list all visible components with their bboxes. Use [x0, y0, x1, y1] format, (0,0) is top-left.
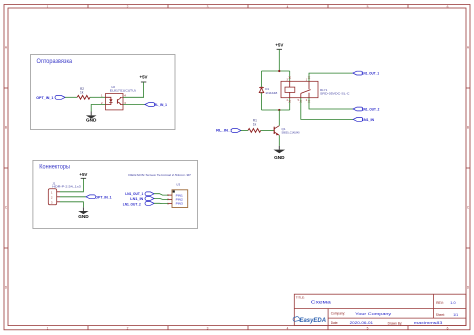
- wire LN1_IN to U3 pin2: [154, 198, 168, 199]
- svg-text:LN1_IN: LN1_IN: [130, 197, 143, 201]
- wire top rail: [262, 70, 290, 72]
- junction: [278, 70, 280, 72]
- svg-text:RL_IN_1: RL_IN_1: [154, 103, 167, 107]
- power +5V (opto section): [140, 75, 148, 83]
- wire port to R2: [65, 96, 77, 98]
- port OPT_IN_1 (connector section): [86, 195, 112, 199]
- svg-text:S8050_C141840: S8050_C141840: [282, 131, 300, 135]
- svg-text:1: 1: [47, 327, 49, 331]
- svg-text:LN1_OUT_1: LN1_OUT_1: [362, 72, 380, 76]
- EasyEDA logo: [293, 317, 326, 325]
- svg-text:Опторазвязка: Опторазвязка: [37, 59, 73, 65]
- svg-text:Your Company: Your Company: [355, 312, 391, 316]
- wire LN1_OUT_2 to U3 pin3: [154, 202, 168, 204]
- svg-text:maximms83: maximms83: [414, 321, 443, 325]
- svg-text:3: 3: [207, 5, 209, 9]
- svg-text:Sheet:: Sheet:: [436, 313, 445, 317]
- wire R1 to base: [261, 129, 275, 131]
- wire collector up: [278, 110, 280, 126]
- svg-text:4: 4: [287, 5, 289, 9]
- title block: [294, 294, 466, 325]
- svg-text:B: B: [467, 126, 469, 130]
- svg-text:OPT_IN_1: OPT_IN_1: [95, 195, 111, 199]
- port LN1_IN (relay): [353, 118, 374, 122]
- svg-text:LN1_OUT_1: LN1_OUT_1: [125, 192, 143, 196]
- diode D1: [259, 87, 277, 95]
- svg-text:2: 2: [127, 327, 129, 331]
- svg-text:6: 6: [447, 5, 449, 9]
- section box Опторазвязка: [31, 55, 176, 130]
- svg-text:1N4448: 1N4448: [265, 91, 277, 95]
- svg-text:+5V: +5V: [275, 42, 283, 47]
- wire emitter to ground: [278, 135, 280, 146]
- svg-text:LN1_OUT_2: LN1_OUT_2: [123, 203, 141, 207]
- svg-text:B: B: [5, 126, 7, 130]
- svg-text:5: 5: [367, 327, 369, 331]
- svg-text:TITLE:: TITLE:: [296, 296, 305, 300]
- port LN1_OUT_1 (connector section): [125, 192, 154, 196]
- ground (connector section): [78, 207, 89, 219]
- svg-text:LN1_IN: LN1_IN: [362, 118, 375, 122]
- svg-text:Date:: Date:: [331, 321, 339, 325]
- section box Коннекторы: [33, 160, 198, 228]
- wire port to R1: [241, 129, 248, 131]
- svg-text:PIN3: PIN3: [176, 202, 184, 206]
- svg-text:3: 3: [207, 327, 209, 331]
- svg-text:1/1: 1/1: [453, 313, 458, 317]
- LED inside U2: [109, 99, 112, 102]
- port LN1_OUT_1 (relay): [353, 71, 379, 75]
- port LN1_IN (connector section): [130, 197, 154, 201]
- title block texts: [296, 296, 458, 326]
- svg-text:1.0: 1.0: [450, 301, 455, 305]
- port OPT_IN_1 (opto section): [36, 96, 65, 101]
- wire diode branch bottom: [261, 93, 263, 110]
- svg-text:2: 2: [127, 5, 129, 9]
- resistor R2: [77, 87, 90, 99]
- svg-text:2020-06-01: 2020-06-01: [350, 321, 374, 325]
- connector J1: [48, 181, 81, 205]
- svg-text:REV:: REV:: [436, 301, 444, 305]
- port RL_IN_1 (relay circuit): [216, 129, 241, 133]
- svg-text:EasyEDA: EasyEDA: [300, 317, 327, 324]
- phototransistor inside U2: [116, 99, 118, 104]
- port RL_IN_1 (opto section): [145, 103, 167, 108]
- svg-text:+5V: +5V: [140, 75, 148, 80]
- svg-text:1k: 1k: [253, 122, 257, 126]
- relay RLY1: [281, 77, 350, 103]
- port LN1_OUT_2 (relay): [353, 107, 379, 111]
- wire diode branch top: [261, 71, 263, 87]
- relay contact arm: [301, 90, 311, 94]
- svg-text:LN1_OUT_2: LN1_OUT_2: [362, 108, 380, 112]
- svg-text:Company:: Company:: [331, 312, 346, 316]
- ground (opto section): [86, 112, 97, 123]
- svg-text:SRD-05VDC-SL-C: SRD-05VDC-SL-C: [320, 92, 350, 96]
- wire +5V to opto pin4: [123, 82, 144, 97]
- ground (relay circuit): [274, 146, 286, 160]
- relay coil: [285, 87, 295, 92]
- svg-text:+5V: +5V: [79, 172, 87, 177]
- svg-text:1: 1: [47, 5, 49, 9]
- wire relay coil bottom to rail: [289, 98, 291, 110]
- svg-text:RL_IN_1: RL_IN_1: [216, 129, 232, 133]
- svg-text:6: 6: [447, 327, 449, 331]
- wire +5V stem: [278, 49, 280, 71]
- svg-text:EL817S1(C)(TU): EL817S1(C)(TU): [110, 88, 136, 92]
- wire LN1_OUT_1 to U3 pin1: [154, 194, 168, 195]
- svg-text:DEGSON Screw Terminal 2.54mm 3: DEGSON Screw Terminal 2.54mm 3P: [128, 173, 191, 177]
- wire opto pin2 to ground: [91, 105, 105, 112]
- svg-text:OPT_IN_1: OPT_IN_1: [36, 96, 53, 100]
- wire bottom rail: [262, 109, 290, 111]
- svg-text:GND: GND: [274, 155, 285, 160]
- wire relay pin2 to LN1_OUT_2: [309, 98, 353, 109]
- junction: [278, 109, 280, 111]
- wire J1 pin1 to +5V: [60, 178, 83, 192]
- port LN1_OUT_2 (connector section): [123, 201, 154, 206]
- wire rail to relay coil top: [289, 71, 291, 81]
- svg-text:Drawn By:: Drawn By:: [388, 321, 403, 325]
- wire relay pin5 to LN1_IN: [301, 98, 353, 120]
- svg-text:HDR-P-2.54_1x3: HDR-P-2.54_1x3: [52, 185, 81, 189]
- wire opto pin3 to RL_IN_1: [123, 104, 145, 106]
- resistor R1: [248, 119, 261, 133]
- svg-text:U3: U3: [176, 183, 180, 187]
- wire J1 pin2 to OPT_IN_1: [60, 196, 86, 198]
- connector U3 (screw terminal): [128, 173, 191, 207]
- transistor Q1: [274, 126, 300, 136]
- power +5V (connector section): [79, 172, 87, 178]
- svg-text:GND: GND: [86, 118, 97, 123]
- wire relay pin1 to LN1_OUT_1: [309, 73, 353, 81]
- svg-text:4: 4: [287, 327, 289, 331]
- svg-text:GND: GND: [78, 214, 89, 219]
- wire J1 pin3 to ground: [60, 202, 83, 208]
- wire R2 to opto pin1: [90, 96, 106, 98]
- svg-text:Схема: Схема: [311, 300, 332, 305]
- svg-text:5: 5: [367, 5, 369, 9]
- optocoupler U2: [101, 85, 136, 110]
- power +5V (relay circuit): [275, 42, 283, 49]
- svg-text:Коннекторы: Коннекторы: [39, 165, 70, 171]
- svg-text:1k: 1k: [80, 91, 84, 95]
